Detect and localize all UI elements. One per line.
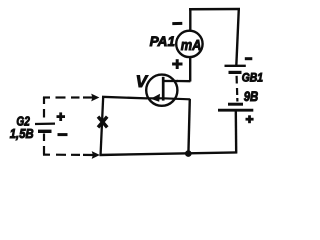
wire (base lead to bottom rail) [163, 98, 190, 154]
wire (emitter lead, break point to transistor) [102, 97, 147, 99]
wire (dashed, between GB1 cells) [236, 76, 239, 102]
wire (bottom horizontal) [100, 152, 237, 155]
wire (meter top lead) [189, 10, 191, 31]
wire (right rail, top to GB1) [236, 9, 239, 66]
wire (right rail, GB1 to bottom) [235, 111, 238, 154]
wire (dashed bottom, to break point) [43, 154, 94, 157]
arrow (bottom probe connection) [92, 151, 100, 159]
wire (dashed, G2 negative lead down) [43, 134, 45, 155]
plus sign of G2 [57, 112, 66, 121]
battery G2 [35, 124, 55, 132]
svg-text:1,5В: 1,5В [10, 126, 34, 141]
svg-text:9В: 9В [244, 88, 259, 104]
minus sign of G2 [58, 133, 68, 136]
wire (meter bottom lead) [189, 58, 191, 82]
battery GB1 bottom cell [218, 104, 253, 110]
plus sign at GB1 [246, 115, 254, 123]
svg-text:GB1: GB1 [242, 72, 263, 84]
wire (top horizontal) [189, 8, 240, 11]
plus sign at meter [172, 59, 182, 69]
minus sign at meter [172, 22, 182, 25]
break point X [98, 117, 107, 128]
junction dot [185, 150, 192, 157]
wire (collector lead to meter) [177, 80, 190, 82]
arrow (top probe connection) [91, 94, 99, 102]
svg-text:PA1: PA1 [150, 33, 176, 49]
svg-text:mA: mA [181, 38, 202, 54]
transistor V [146, 75, 178, 106]
wire (dashed top, to break point) [43, 96, 93, 98]
wire (dashed, G2 positive lead up) [43, 97, 45, 118]
minus sign at GB1 [245, 57, 253, 60]
wire (vertical with break points) [101, 97, 104, 155]
battery GB1 top cell [225, 66, 246, 73]
meter PA1 [176, 31, 202, 57]
